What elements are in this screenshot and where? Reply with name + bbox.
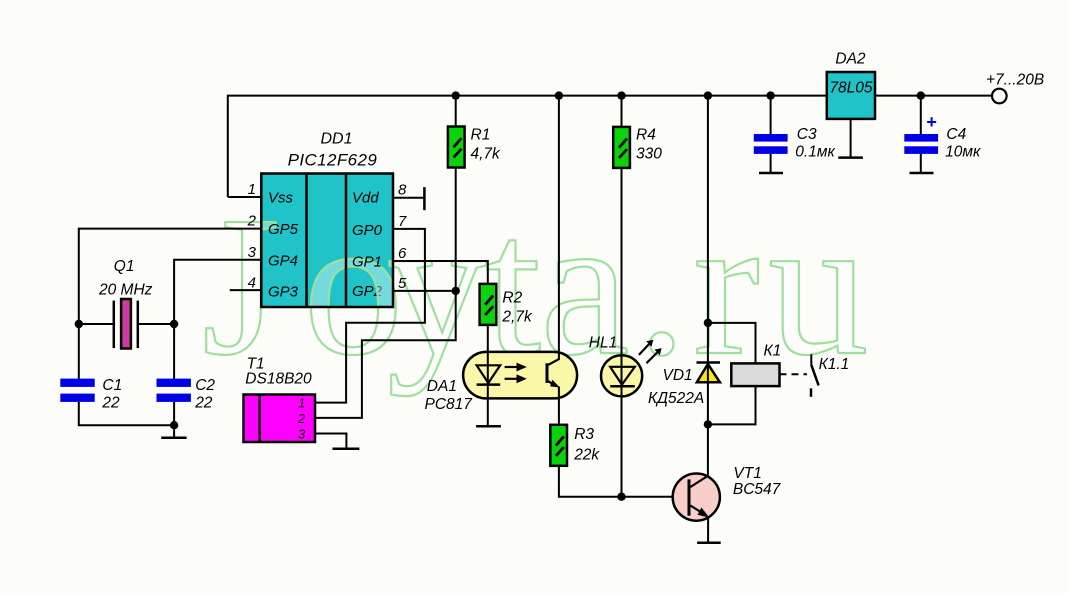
wire opto collector from rail [558,96,560,359]
svg-text:8: 8 [398,182,407,199]
wire pin2 GP5 to crystal left [79,229,261,324]
svg-text:К1.1: К1.1 [819,356,850,373]
svg-text:DS18B20: DS18B20 [245,371,312,388]
svg-text:GP1: GP1 [352,254,382,271]
wire DA1 emitter inside [558,387,560,399]
wire C4 bottom to ground [920,154,922,173]
wire VD1 branch from rail [707,96,709,362]
svg-text:78L05: 78L05 [829,80,872,97]
wire DA1 LED through [487,352,489,399]
wire VD1 bottom to VT1 collector [707,382,709,476]
terminal +V circle [992,89,1007,104]
DA1 emitter lead [547,381,556,386]
wire opto emitter to R3 [558,387,560,425]
wire C2 stem [173,324,175,379]
svg-text:2: 2 [247,213,257,230]
svg-text:10мк: 10мк [945,144,981,161]
junction pin5-R1 [452,287,460,295]
wire C1 stem [78,324,80,379]
wire C2 bottom to ground [173,402,175,438]
diode VD1 triangle [697,364,720,382]
svg-text:DA2: DA2 [835,51,866,68]
svg-text:GP4: GP4 [268,253,298,270]
DA1 collector lead [547,359,560,366]
svg-text:PC817: PC817 [425,396,474,413]
svg-text:1: 1 [248,181,256,198]
ground C4 [910,172,934,175]
HL1 wire through [621,355,623,396]
svg-text:VT1: VT1 [733,465,761,482]
junction VD1-K1 top [704,319,712,327]
junction rail-R1 [452,91,460,99]
optocoupler DA1 body [463,352,577,399]
svg-text:3: 3 [298,427,306,442]
contact K1.1 blade [811,365,818,386]
svg-text:2,7k: 2,7k [501,309,533,326]
wire pin8 Vdd stub [393,197,424,199]
contact K1.1 top terminal [810,354,812,365]
svg-text:VD1: VD1 [663,367,693,384]
junction rail-C3 [766,91,774,99]
junction C1-C2 ground [170,421,178,429]
svg-text:GP5: GP5 [268,221,299,238]
wire through VD1 [707,363,709,383]
DA1 LED cathode bar [477,383,501,386]
crystal Q1 electrodes [113,301,116,349]
svg-text:Q1: Q1 [114,258,135,275]
HL1 triangle [610,367,635,385]
VT1 base bar [688,479,691,515]
terminal bar pin8 [423,187,426,210]
svg-text:2: 2 [297,411,306,426]
DA1 light arrow 1 [505,366,520,368]
wire DA1 collector inside [558,352,560,360]
IC DD1 divider right [345,174,348,308]
svg-text:Vdd: Vdd [352,190,379,207]
svg-text:7: 7 [398,213,407,230]
LED HL1 circle [601,355,642,396]
svg-text:R2: R2 [502,290,522,307]
junction HL1-base wire [617,493,625,501]
ground DA2 [838,156,863,159]
svg-text:+7...20В: +7...20В [986,71,1044,88]
DA1 phototransistor bar [546,363,549,383]
wire C1 bottom to C2 stem [79,402,174,425]
resistor R2 [480,284,497,325]
svg-text:C4: C4 [946,126,966,143]
ground T1 [333,448,360,451]
capacitor C4 plates [904,134,938,142]
svg-text:5: 5 [398,275,407,292]
wire R1 top [455,96,457,127]
crystal Q1 body [121,299,131,349]
svg-text:R1: R1 [471,127,491,144]
ground C3 [759,172,783,175]
svg-text:330: 330 [636,146,662,163]
svg-text:GP3: GP3 [268,284,299,301]
svg-text:R4: R4 [636,127,656,144]
svg-text:C2: C2 [195,377,215,394]
svg-text:+: + [926,112,937,132]
junction rail-C4 [917,91,925,99]
capacitor C2 plates [157,379,191,387]
svg-text:BC547: BC547 [733,481,782,498]
junction crystal-C2 [170,320,178,328]
wire pin7 GP0 to T1 pin1 [315,229,425,403]
wire pin3 GP4 to crystal right [174,260,261,324]
wire VT1 emitter to ground [707,518,709,543]
svg-text:1: 1 [298,396,305,411]
wire DA2 ground stem [850,119,852,158]
regulator DA2 body [827,72,875,119]
svg-text:4: 4 [248,275,256,292]
svg-text:GP0: GP0 [352,222,383,239]
relay K1 coil [731,363,779,386]
svg-text:22: 22 [101,395,120,412]
svg-text:PIC12F629: PIC12F629 [288,151,378,170]
junction rail-VD1 [704,91,712,99]
wire crystal right [138,323,174,325]
HL1 cathode bar [610,385,635,388]
dashed link K1 contact [780,373,808,375]
resistor R3 [550,425,567,466]
svg-text:DA1: DA1 [427,378,457,395]
capacitor C1 plates [60,379,94,387]
svg-text:HL1: HL1 [589,334,617,351]
ground DA1 [476,425,501,428]
svg-text:6: 6 [398,245,407,262]
HL1 emission arrow 2 [647,352,658,363]
wire R1 bottom to pin5 node to T1 pin2 [315,167,456,418]
wire R2 bottom into opto LED [487,325,489,385]
svg-text:0.1мк: 0.1мк [795,144,835,161]
wire C4 stem [920,96,922,134]
wire pin1 Vss [228,196,261,198]
HL1 emission arrow 1 [639,344,649,355]
svg-text:R3: R3 [574,426,594,443]
svg-text:4,7k: 4,7k [471,146,502,163]
resistor R1 [448,127,465,168]
diode VD1 cathode bar [697,361,721,364]
VT1 emitter lead [690,506,704,515]
IC DD1 body [261,174,393,308]
wire R3 bottom to VT1 base [559,466,673,497]
resistor R4 [613,127,630,168]
svg-text:Vss: Vss [268,190,294,207]
svg-text:DD1: DD1 [320,131,352,148]
wire R4 bottom to HL1 node [621,168,623,497]
sensor T1 divider [258,395,261,443]
junction crystal-C1 [75,320,83,328]
sensor T1 body [244,395,316,443]
wire R4 top [621,96,623,127]
wire opto LED cathode to ground [487,385,489,427]
wire K1 top branch [708,323,756,364]
svg-text:3: 3 [248,244,257,261]
wire top rail left segment [228,96,827,197]
svg-text:КД522А: КД522А [648,390,704,407]
svg-text:22: 22 [194,395,213,412]
wire C3 stem [770,96,772,134]
transistor VT1 circle [673,474,720,521]
IC DD1 border [261,174,393,308]
wire crystal left [79,323,114,325]
capacitor C3 plates [754,134,788,142]
DA1 LED triangle [477,365,501,383]
contact K1.1 bottom terminal [810,388,813,396]
svg-text:К1: К1 [764,343,782,360]
junction rail-R4 [617,91,625,99]
DA1 light arrow 2 [505,378,520,380]
ground VT1 [697,542,721,545]
svg-text:C3: C3 [797,126,817,143]
wire pin5 GP2 [393,290,456,292]
wire top rail right segment [875,95,992,97]
ground C2 [161,437,186,440]
VT1 collector lead [690,475,709,487]
svg-text:22k: 22k [573,446,600,463]
wire pin4 GP3 stub [230,289,262,291]
junction VD1-K1 bottom [704,420,712,428]
IC DD1 divider left [305,174,308,308]
wire C3 bottom to ground [770,154,772,173]
wire K1 bottom branch [708,386,756,424]
svg-text:20 MHz: 20 MHz [98,282,153,299]
svg-text:C1: C1 [102,377,122,394]
wire pin6 GP1 to R2 [393,261,488,284]
wire T1 pin3 to ground [315,434,346,449]
junction rail-opto collector [555,91,563,99]
